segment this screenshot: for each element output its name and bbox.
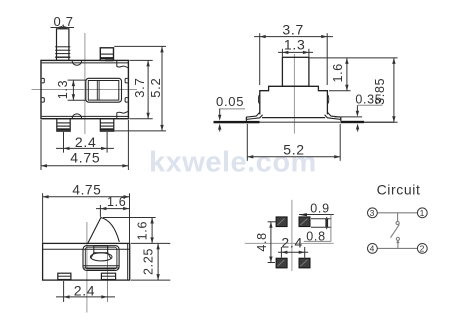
svg-text:0.7: 0.7	[54, 14, 74, 29]
svg-text:5.2: 5.2	[148, 78, 163, 98]
svg-text:0.8: 0.8	[306, 230, 325, 244]
svg-text:0.9: 0.9	[310, 202, 329, 216]
svg-text:4: 4	[370, 243, 375, 253]
svg-text:4.75: 4.75	[72, 182, 101, 197]
svg-text:1.3: 1.3	[284, 37, 306, 53]
svg-text:4.8: 4.8	[255, 232, 269, 251]
svg-text:5.2: 5.2	[283, 141, 305, 157]
svg-text:1.6: 1.6	[107, 195, 126, 209]
svg-text:2.4: 2.4	[75, 134, 97, 150]
svg-text:2.4: 2.4	[281, 235, 303, 251]
svg-text:1.3: 1.3	[56, 80, 70, 99]
svg-text:2.25: 2.25	[141, 248, 155, 275]
svg-text:4.75: 4.75	[70, 149, 100, 165]
svg-text:1: 1	[420, 208, 425, 218]
svg-text:Circuit: Circuit	[377, 181, 421, 197]
svg-text:2: 2	[420, 243, 425, 253]
svg-text:0.35: 0.35	[355, 93, 382, 107]
svg-text:3.7: 3.7	[132, 78, 147, 98]
svg-text:3.7: 3.7	[282, 21, 304, 37]
svg-text:3: 3	[370, 208, 375, 218]
svg-text:2.4: 2.4	[74, 282, 96, 298]
svg-text:1.6: 1.6	[136, 221, 150, 240]
svg-text:0.05: 0.05	[216, 94, 244, 109]
svg-text:1.6: 1.6	[331, 63, 345, 82]
